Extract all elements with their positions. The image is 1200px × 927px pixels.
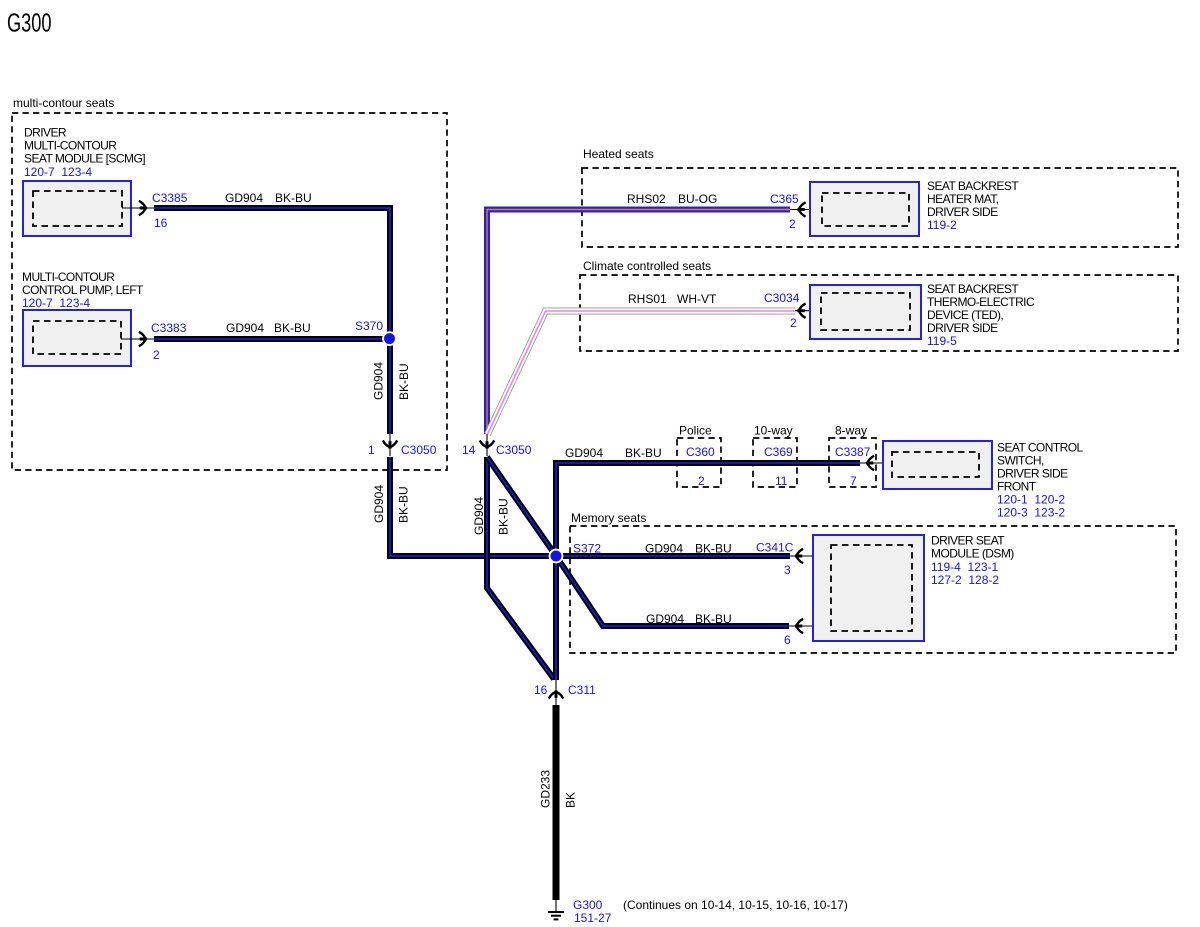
group box: 8-way	[829, 424, 876, 488]
label U2	[22, 270, 144, 310]
svg-text:C3050: C3050	[496, 443, 532, 457]
svg-text:RHS01: RHS01	[628, 292, 667, 306]
svg-text:GD904: GD904	[372, 362, 386, 400]
svg-text:RHS02: RHS02	[627, 192, 666, 206]
svg-text:Memory seats: Memory seats	[571, 511, 646, 525]
group box: 10-way	[753, 424, 797, 488]
wire GD904 BK-BU from C3383 to S370	[154, 321, 390, 339]
connector C3050 pin 14	[462, 434, 532, 457]
component U2: MULTI-CONTOUR CONTROL PUMP, LEFT	[23, 310, 154, 366]
svg-text:DEVICE (TED),: DEVICE (TED),	[927, 308, 1003, 322]
svg-text:WH-VT: WH-VT	[677, 292, 717, 306]
svg-text:BK-BU: BK-BU	[397, 486, 411, 523]
wire GD904 BK-BU from C3050 pin14 down, diagonal to C311	[472, 457, 554, 679]
connector C3383 pin 2	[139, 321, 187, 362]
connector C360 pin 2	[686, 445, 715, 488]
svg-text:GD904: GD904	[565, 446, 603, 460]
svg-text:Police: Police	[679, 424, 712, 438]
ground G300	[548, 898, 612, 925]
svg-text:11: 11	[775, 474, 788, 488]
svg-text:DRIVER SEAT: DRIVER SEAT	[931, 534, 1005, 548]
svg-text:119-5: 119-5	[927, 334, 957, 348]
svg-text:BK-BU: BK-BU	[274, 321, 311, 335]
svg-text:SEAT MODULE [SCMG]: SEAT MODULE [SCMG]	[24, 152, 145, 166]
svg-text:C3034: C3034	[764, 291, 800, 305]
svg-text:C3387: C3387	[835, 445, 871, 459]
svg-text:6: 6	[784, 633, 791, 647]
component U3: SEAT BACKREST HEATER MAT, DRIVER SIDE	[810, 182, 919, 236]
svg-text:BK-BU: BK-BU	[275, 191, 312, 205]
svg-text:SEAT CONTROL: SEAT CONTROL	[997, 440, 1084, 454]
label U4	[927, 282, 1035, 348]
svg-text:C3383: C3383	[151, 321, 187, 335]
svg-text:120-1 120-2: 120-1 120-2	[997, 492, 1065, 506]
svg-text:BK-BU: BK-BU	[497, 498, 511, 535]
svg-text:119-4 123-1: 119-4 123-1	[931, 560, 998, 574]
svg-text:2: 2	[153, 348, 160, 362]
label U1	[24, 125, 145, 179]
connector C3050 pin 1	[368, 434, 437, 457]
svg-text:10-way: 10-way	[754, 424, 793, 438]
svg-text:2: 2	[789, 217, 796, 231]
svg-text:SEAT BACKREST: SEAT BACKREST	[927, 282, 1019, 296]
svg-text:GD904: GD904	[472, 497, 486, 535]
wire GD904 BK-BU from S370 down to C3050 pin 1	[372, 339, 412, 434]
wire GD904 BK-BU from S372 up to C3387	[556, 446, 860, 556]
connector C341C pin 3	[756, 541, 831, 578]
svg-text:C369: C369	[764, 445, 793, 459]
svg-text:multi-contour seats: multi-contour seats	[13, 96, 114, 110]
svg-text:DRIVER SIDE: DRIVER SIDE	[927, 205, 998, 219]
splice S370 dot	[382, 331, 397, 346]
svg-text:2: 2	[790, 316, 797, 330]
group box: Heated seats	[582, 147, 1178, 247]
svg-text:GD904: GD904	[645, 542, 683, 556]
label U6	[931, 534, 1014, 588]
svg-text:127-2 128-2: 127-2 128-2	[931, 573, 999, 587]
svg-text:DRIVER: DRIVER	[24, 125, 67, 139]
svg-text:G300: G300	[573, 898, 603, 912]
svg-text:Heated seats: Heated seats	[583, 147, 654, 161]
component U1: DRIVER MULTI-CONTOUR SEAT MODULE [SCMG]	[23, 181, 154, 236]
connector C3034 pin 2	[764, 291, 821, 330]
svg-text:14: 14	[462, 443, 476, 457]
svg-text:MULTI-CONTOUR: MULTI-CONTOUR	[22, 270, 115, 284]
svg-text:1: 1	[368, 443, 375, 457]
wire GD904 BK-BU from C3385 to S370 corner	[154, 191, 390, 339]
wire GD904 BK-BU from C3050 pin1 down and right to S372	[372, 457, 553, 556]
svg-text:GD904: GD904	[646, 612, 684, 626]
svg-text:MODULE (DSM): MODULE (DSM)	[931, 547, 1014, 561]
svg-text:(Continues on 10-14, 10-15, 10: (Continues on 10-14, 10-15, 10-16, 10-17…	[623, 898, 848, 912]
wire RHS02 BU-OG from C365 to C3050 pin 14	[487, 192, 790, 434]
splice S372	[573, 542, 601, 556]
svg-text:16: 16	[154, 216, 168, 230]
svg-text:SWITCH,: SWITCH,	[997, 453, 1044, 467]
svg-text:DRIVER SIDE: DRIVER SIDE	[927, 321, 998, 335]
svg-text:FRONT: FRONT	[997, 479, 1037, 493]
svg-text:BK-BU: BK-BU	[695, 612, 732, 626]
svg-text:BK: BK	[564, 792, 578, 808]
svg-text:C3385: C3385	[152, 191, 188, 205]
svg-text:BU-OG: BU-OG	[678, 192, 717, 206]
svg-text:GD233: GD233	[539, 770, 553, 808]
connector C3385 pin 16	[139, 191, 188, 230]
svg-text:GD904: GD904	[225, 191, 263, 205]
svg-text:C341C: C341C	[756, 541, 794, 555]
label U3	[927, 179, 1019, 232]
connector C3387 pin 7	[835, 445, 892, 488]
svg-text:HEATER MAT,: HEATER MAT,	[927, 192, 999, 206]
svg-text:BK-BU: BK-BU	[397, 363, 411, 400]
group box: Climate controlled seats	[580, 259, 1178, 351]
connector DSM pin 6	[784, 619, 831, 647]
group box: Police	[677, 424, 721, 488]
wire GD233 BK from C311 to ground G300	[539, 705, 578, 900]
svg-text:GD904: GD904	[372, 485, 386, 523]
wire GD904 BK-BU from S372 down to C311	[553, 556, 559, 680]
svg-text:120-7 123-4: 120-7 123-4	[24, 165, 92, 179]
component U5: SEAT CONTROL SWITCH, DRIVER SIDE FRONT	[883, 441, 992, 489]
svg-text:3: 3	[784, 563, 791, 577]
svg-text:16: 16	[534, 683, 548, 697]
svg-text:SEAT BACKREST: SEAT BACKREST	[927, 179, 1019, 193]
connector C311 pin 16	[534, 680, 596, 705]
group box: Memory seats	[570, 511, 1176, 653]
wire GD904 BK-BU from S372 to C341C pin 3	[556, 542, 790, 557]
svg-text:120-7 123-4: 120-7 123-4	[22, 296, 90, 310]
svg-text:C3050: C3050	[401, 443, 437, 457]
svg-text:G300: G300	[7, 8, 52, 38]
svg-text:C360: C360	[686, 445, 715, 459]
connector C365 pin 2	[770, 192, 822, 231]
component U6: DRIVER SEAT MODULE (DSM)	[813, 535, 924, 641]
component U4: SEAT BACKREST THERMO-ELECTRIC DEVICE (TED)	[810, 285, 921, 339]
svg-text:S370: S370	[355, 319, 383, 333]
svg-text:THERMO-ELECTRIC: THERMO-ELECTRIC	[927, 295, 1035, 309]
svg-text:Climate controlled seats: Climate controlled seats	[583, 259, 711, 273]
svg-text:C311: C311	[568, 683, 596, 697]
svg-text:DRIVER SIDE: DRIVER SIDE	[997, 466, 1068, 480]
svg-text:GD904: GD904	[226, 321, 264, 335]
group box: multi-contour seats	[12, 96, 447, 470]
svg-text:MULTI-CONTOUR: MULTI-CONTOUR	[24, 139, 117, 153]
svg-text:151-27: 151-27	[574, 911, 612, 925]
svg-text:119-2: 119-2	[927, 218, 957, 232]
connector C369 pin 11	[764, 445, 793, 488]
splice S372 dot	[549, 549, 564, 564]
wire GD904 BK-BU from S372 diagonal to DSM pin 6	[556, 556, 789, 626]
wire diagonal from C3050 pin14 to splice S372	[487, 457, 556, 556]
svg-text:BK-BU: BK-BU	[695, 542, 732, 556]
svg-text:C365: C365	[770, 192, 799, 206]
svg-text:120-3 123-2: 120-3 123-2	[997, 505, 1065, 519]
svg-text:8-way: 8-way	[835, 424, 867, 438]
svg-text:BK-BU: BK-BU	[625, 446, 662, 460]
label U5	[997, 440, 1084, 519]
svg-text:2: 2	[698, 474, 705, 488]
splice S370	[355, 319, 383, 333]
wire RHS01 WH-VT from C3034 to C3050 pin 14	[488, 292, 796, 435]
svg-text:7: 7	[850, 474, 857, 488]
